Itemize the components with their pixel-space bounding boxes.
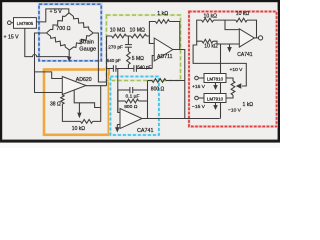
ground LM7810: [213, 83, 218, 91]
op-amp CA741 integrator: [120, 109, 153, 135]
svg-text:LM7810: LM7810: [207, 76, 224, 81]
svg-text:10 kΩ: 10 kΩ: [204, 13, 218, 19]
svg-text:Gauge: Gauge: [79, 47, 96, 53]
wire 1 kOhm right to output: [170, 22, 180, 50]
resistor 800 Ohm coupling: [148, 79, 185, 93]
svg-text:10 kΩ: 10 kΩ: [204, 44, 218, 50]
notch filter section box (green dashed): [106, 15, 180, 80]
svg-text:700 Ω: 700 Ω: [56, 26, 70, 32]
wire 38 Ohm to gain pot: [62, 104, 80, 121]
wire 1 kOhm left to input: [149, 22, 155, 44]
resistor 10 kOhm input top: [202, 13, 218, 22]
amplifier section box (orange): [44, 70, 109, 135]
svg-text:AD620: AD620: [76, 77, 92, 83]
op-amp AD620: [62, 77, 91, 95]
wire twin-T to integrator input: [118, 69, 120, 113]
resistor 1 kOhm feedback: [156, 11, 170, 23]
resistor 800 Ohm feedback: [118, 99, 148, 110]
svg-text:AD711: AD711: [157, 54, 173, 60]
resistor 5 MOhm: [127, 52, 145, 65]
resistor 10 kOhm input bottom: [202, 39, 218, 49]
svg-text:540 pF: 540 pF: [107, 58, 121, 63]
output/power section box (red dashed): [189, 12, 277, 127]
wire AD620 ref stub: [74, 90, 101, 108]
wire: [126, 35, 131, 37]
wire LM7805 output to bridge top: [36, 9, 68, 22]
svg-text:+10 V: +10 V: [230, 67, 244, 73]
wire LM7910 out to pot: [226, 95, 233, 98]
wire: [198, 97, 204, 99]
wire bottom rail segments: [107, 68, 153, 70]
photo frame border: [0, 0, 280, 143]
terminal LM7910 input: [195, 96, 199, 100]
wire twin-T center tap: [127, 36, 129, 45]
resistor bridge bottom-right arm (strain gauge): [69, 33, 93, 50]
label +15 V: [192, 84, 206, 90]
wire top rail to AD711 input: [147, 36, 155, 44]
ground bridge bottom: [67, 50, 72, 62]
regulator LM7810: [204, 74, 226, 83]
label +10 V: [230, 67, 244, 73]
wire pot to output feedback: [93, 86, 101, 122]
svg-text:−10 V: −10 V: [228, 108, 242, 114]
op-amp AD711: [154, 38, 173, 61]
wire feedback right rail: [147, 81, 149, 119]
svg-text:1 kΩ: 1 kΩ: [243, 102, 254, 108]
label +15 V: [4, 34, 20, 40]
resistor bridge top-left arm: [46, 13, 69, 33]
capacitor 0.1 uF feedback: [118, 87, 148, 100]
svg-text:CA741: CA741: [237, 52, 253, 58]
resistor 10 MOhm first: [110, 27, 127, 38]
svg-text:+ 15 V: + 15 V: [4, 34, 20, 40]
wire AD620 output: [86, 85, 107, 87]
svg-text:38 Ω: 38 Ω: [50, 101, 61, 107]
ground LM7910: [213, 103, 218, 111]
svg-text:Strain: Strain: [79, 39, 94, 45]
svg-text:10 MΩ: 10 MΩ: [110, 27, 126, 33]
svg-text:CA741: CA741: [137, 128, 153, 134]
wire 5 MOhm to bottom rail: [127, 65, 129, 69]
resistor bridge top-right arm: [69, 13, 93, 33]
wire feedback left rail: [117, 90, 119, 113]
svg-text:10 kΩ: 10 kΩ: [72, 126, 85, 132]
label Strain Gauge: [79, 39, 96, 52]
wire bridge left output to AD620 inputs: [35, 33, 63, 93]
wire signal rise: [220, 44, 222, 119]
svg-text:10 MΩ: 10 MΩ: [130, 27, 146, 33]
label -10 V: [228, 108, 242, 114]
wire wiper reference loop: [193, 41, 246, 86]
regulator LM7805: [14, 18, 37, 29]
wire to non-inverting input: [213, 41, 239, 44]
wire: [198, 77, 204, 79]
svg-text:+15 V: +15 V: [192, 84, 206, 90]
terminal LM7810 input: [195, 76, 199, 80]
integrator section box (cyan dashed): [110, 77, 158, 136]
svg-text:−15 V: −15 V: [192, 104, 206, 110]
wire AD620 output rise to filter: [106, 36, 108, 86]
label -15 V: [192, 104, 206, 110]
svg-text:10 kΩ: 10 kΩ: [236, 11, 250, 17]
bridge section box (blue dashed): [39, 4, 101, 61]
op-amp CA741 difference: [237, 29, 254, 58]
wire: [11, 22, 13, 24]
wire integrator output bus: [142, 118, 220, 120]
wire LM7810 out to pot: [226, 78, 233, 81]
wire rail: [214, 19, 236, 21]
terminal +15V input: [8, 21, 12, 25]
wire LM7805 ground with hop: [25, 28, 69, 56]
wire output: [254, 37, 258, 39]
wire twin-T input node: [107, 35, 112, 37]
svg-text:LM7910: LM7910: [207, 96, 224, 101]
wiper arrow 10 kOhm pot: [77, 103, 81, 118]
wire bottom rail to AD711 input: [152, 56, 154, 69]
label 700 Ohm: [56, 26, 70, 32]
wire input node left: [197, 20, 202, 41]
svg-text:LM7805: LM7805: [17, 21, 34, 26]
label +5 V: [50, 9, 63, 15]
capacitor 270 pF: [108, 45, 132, 52]
wire bridge right output: [93, 33, 106, 82]
wire AD711 output: [173, 50, 185, 119]
potentiometer 10 kOhm: [72, 120, 93, 132]
resistor 38 Ohm: [50, 95, 64, 107]
svg-text:270 pF: 270 pF: [108, 45, 123, 50]
resistor bridge bottom-left arm: [46, 33, 69, 50]
resistor 10 kOhm feedback: [236, 11, 257, 38]
svg-text:540 pF: 540 pF: [137, 64, 151, 69]
ground difference amp: [227, 44, 232, 53]
svg-text:+ 5 V: + 5 V: [50, 9, 63, 15]
regulator LM7910: [204, 94, 226, 103]
resistor 10 MOhm second: [130, 27, 147, 38]
svg-text:800 Ω: 800 Ω: [124, 104, 138, 110]
capacitor 540 pF left: [107, 58, 121, 72]
svg-text:5 MΩ: 5 MΩ: [132, 56, 144, 62]
wire to inverting input: [225, 20, 239, 30]
ground CA741 non-inverting: [115, 125, 120, 133]
capacitor 540 pF right: [134, 64, 152, 72]
svg-text:800 Ω: 800 Ω: [151, 86, 165, 92]
svg-text:1 kΩ: 1 kΩ: [157, 11, 168, 17]
wiper arrow 1 kOhm pot: [236, 83, 242, 89]
potentiometer 1 kOhm: [231, 81, 253, 108]
terminal output: [259, 36, 263, 40]
